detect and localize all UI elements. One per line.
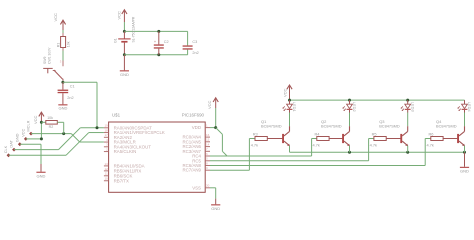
- capacitor C2: [154, 31, 169, 54]
- capacitor C1: [58, 82, 75, 104]
- junction emitter Q2: [348, 151, 351, 154]
- svg-text:GND: GND: [14, 133, 19, 142]
- svg-text:C3: C3: [192, 40, 197, 44]
- node GND (ICSP pad): [14, 133, 21, 146]
- wire VCC to VDD: [210, 108, 216, 128]
- resistor R4 4.7k: [312, 131, 343, 156]
- resistor R5 4.7k: [369, 131, 401, 161]
- svg-text:2n2: 2n2: [192, 51, 198, 55]
- ground (VSS): [211, 199, 220, 211]
- wire RC7 to R3 feed: [210, 169, 249, 171]
- junction VCC pad riser: [40, 137, 43, 140]
- svg-text:4.7k: 4.7k: [427, 143, 434, 148]
- svg-text:4.7k: 4.7k: [251, 143, 258, 148]
- svg-text:PIC16F690: PIC16F690: [182, 113, 205, 118]
- wire RC6 to R6 feed: [210, 165, 425, 167]
- svg-text:U$1: U$1: [112, 113, 121, 118]
- svg-text:BC847SMD: BC847SMD: [261, 123, 282, 128]
- LED LED4: [458, 100, 473, 112]
- junction rail LED3: [406, 99, 409, 102]
- svg-text:LED3: LED3: [410, 102, 415, 112]
- svg-text:VCC: VCC: [283, 88, 288, 97]
- junction switch/C1 node: [61, 81, 64, 84]
- junction C2 bottom: [157, 53, 160, 56]
- svg-text:GND: GND: [37, 173, 46, 178]
- IC U$1 PIC16F690 box: [109, 113, 206, 193]
- ground (emitter rail): [460, 152, 469, 173]
- ground (below C1): [58, 104, 67, 110]
- svg-text:19: 19: [104, 124, 108, 128]
- svg-text:16: 16: [206, 133, 210, 137]
- svg-text:CW1 300V: CW1 300V: [48, 47, 52, 64]
- junction VDD: [214, 126, 217, 129]
- node VCC (ICSP pad): [20, 128, 27, 140]
- resistor R2: [41, 116, 63, 133]
- wire top rail: [124, 30, 187, 32]
- svg-text:MCLR: MCLR: [26, 120, 31, 131]
- wire bottom rail: [124, 54, 187, 56]
- LED LED1: [283, 100, 298, 112]
- svg-text:BC847SMD: BC847SMD: [379, 123, 400, 128]
- svg-text:G1: G1: [114, 38, 118, 43]
- svg-text:GND: GND: [120, 72, 129, 77]
- svg-text:4.7k: 4.7k: [370, 143, 377, 148]
- wire: [63, 82, 97, 128]
- wire CLK to RA1: [9, 133, 104, 156]
- svg-text:VSS: VSS: [192, 185, 201, 190]
- junction VCC/R2: [40, 121, 43, 124]
- junction emitter Q3: [406, 151, 409, 154]
- LED LED3: [401, 100, 416, 112]
- transistor Q2 BC847SMD: [321, 113, 350, 153]
- svg-text:GND: GND: [211, 206, 220, 211]
- wire RC5 to R5 feed: [210, 160, 369, 162]
- svg-text:11: 11: [105, 172, 108, 176]
- wire VDD staircase to R4 feed: [216, 128, 312, 156]
- junction C2 top: [157, 30, 160, 33]
- wire: [62, 48, 64, 64]
- svg-text:R5: R5: [372, 131, 377, 136]
- node MCLR (ICSP pad): [26, 120, 33, 135]
- svg-text:BC847SMD: BC847SMD: [321, 123, 342, 128]
- svg-text:R3: R3: [253, 131, 258, 136]
- svg-text:10k: 10k: [67, 41, 71, 47]
- svg-text:LED1: LED1: [292, 102, 297, 112]
- svg-text:R2: R2: [49, 125, 54, 129]
- svg-text:RB7/TX: RB7/TX: [114, 178, 129, 183]
- svg-text:GND: GND: [58, 106, 67, 111]
- switch S1: [43, 47, 63, 82]
- svg-text:2n2: 2n2: [67, 96, 73, 100]
- wire: [62, 30, 64, 37]
- wire LED top rail: [290, 99, 465, 101]
- transistor Q1 BC847SMD: [261, 113, 290, 153]
- svg-text:17: 17: [104, 133, 108, 137]
- resistor R1: [56, 37, 70, 48]
- svg-text:10: 10: [104, 177, 108, 181]
- transistor Q3 BC847SMD: [379, 113, 408, 153]
- IC U$1 right pins VDD,RC0-RC7,VSS: [182, 124, 210, 191]
- svg-text:12: 12: [104, 167, 108, 171]
- wire VSS to ground: [210, 188, 216, 199]
- wire RC4 stub join: [210, 155, 227, 157]
- svg-text:4.7k: 4.7k: [313, 143, 320, 148]
- junction RA0 node: [96, 126, 99, 129]
- svg-text:VCC: VCC: [207, 100, 212, 109]
- svg-text:VCC: VCC: [53, 13, 58, 22]
- power VCC symbol (LED rail): [283, 85, 293, 100]
- svg-text:C1: C1: [70, 84, 75, 88]
- svg-text:DAT: DAT: [9, 139, 14, 147]
- svg-text:20: 20: [206, 184, 210, 188]
- junction battery bottom: [123, 53, 126, 56]
- svg-text:VCC: VCC: [117, 11, 122, 20]
- wire DAT to RA0: [14, 128, 104, 150]
- svg-text:RA5/CLKIN: RA5/CLKIN: [114, 149, 137, 154]
- svg-text:SL-750/12AA/PR: SL-750/12AA/PR: [132, 16, 136, 42]
- power VCC symbol (MCLR pullup): [33, 112, 44, 124]
- LED LED2: [343, 100, 358, 112]
- wire MCLR to RA3: [31, 134, 104, 142]
- transistor Q4 BC847SMD: [436, 113, 465, 153]
- svg-text:R6: R6: [429, 131, 434, 136]
- resistor R3 4.7k: [249, 131, 282, 170]
- svg-text:14: 14: [206, 143, 210, 147]
- svg-text:LED2: LED2: [352, 102, 357, 112]
- svg-text:10k: 10k: [47, 116, 53, 120]
- svg-text:C2: C2: [164, 40, 169, 44]
- wire: [123, 22, 125, 31]
- ground (ICSP): [36, 164, 45, 178]
- svg-text:GND: GND: [460, 169, 469, 174]
- svg-text:VDD: VDD: [192, 125, 201, 130]
- svg-text:+: +: [154, 40, 156, 44]
- wire GND pad down: [20, 144, 41, 164]
- power VCC symbol (battery): [117, 10, 127, 22]
- svg-text:15: 15: [206, 138, 210, 142]
- node DAT (ICSP pad): [9, 139, 16, 151]
- junction battery top: [123, 30, 126, 33]
- svg-text:RC7/AN9: RC7/AN9: [182, 168, 201, 173]
- svg-text:LED4: LED4: [467, 102, 472, 113]
- IC U$1 left pins RA0-RB7: [104, 124, 165, 184]
- wire VCC pad up: [26, 122, 42, 139]
- junction rail LED1: [288, 99, 291, 102]
- svg-text:SW9: SW9: [43, 57, 47, 64]
- svg-text:R4: R4: [315, 131, 321, 136]
- ground (battery): [120, 55, 129, 77]
- resistor R6 4.7k: [425, 131, 457, 165]
- svg-text:CLK: CLK: [3, 145, 8, 153]
- svg-text:13: 13: [104, 162, 108, 166]
- wire emitter rail: [290, 151, 465, 153]
- battery G1: [114, 16, 136, 55]
- svg-text:VCC: VCC: [33, 115, 38, 124]
- svg-text:18: 18: [104, 128, 108, 132]
- junction emitter Q4 / ground: [463, 151, 466, 154]
- capacitor C3: [183, 31, 199, 54]
- node CLK (ICSP pad): [3, 145, 10, 157]
- power VCC symbol (reset divider): [53, 13, 66, 30]
- svg-text:R1: R1: [56, 43, 60, 48]
- svg-text:BC847SMD: BC847SMD: [436, 123, 457, 128]
- power VCC symbol (VDD): [207, 98, 218, 109]
- junction rail LED2: [348, 99, 351, 102]
- junction MCLR pullup: [62, 132, 65, 135]
